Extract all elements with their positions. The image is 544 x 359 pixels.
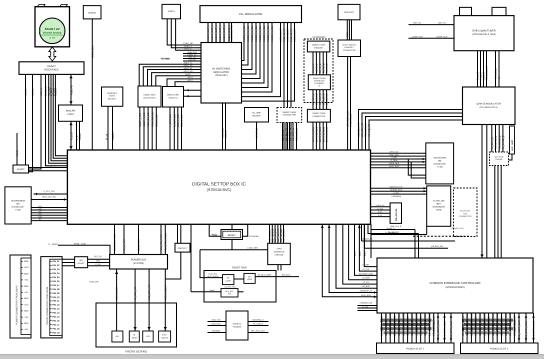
svg-text:FLASH_RST: FLASH_RST: [389, 231, 401, 234]
svg-text:-12V: -12V: [24, 316, 29, 319]
svg-text:DATA(0)_BUS: DATA(0)_BUS: [390, 188, 403, 191]
svg-text:PCMCIA SLOT 1: PCMCIA SLOT 1: [406, 348, 425, 351]
svg-text:CON_TXD: CON_TXD: [211, 319, 221, 322]
svg-text:AUDIO DAC: AUDIO DAC: [143, 94, 156, 97]
svg-text:CVBS_HD: CVBS_HD: [183, 42, 193, 45]
svg-text:PC_CD_B: PC_CD_B: [407, 316, 410, 328]
svg-text:CVCTR: CVCTR: [189, 58, 196, 61]
svg-text:IOB: IOB: [505, 327, 508, 332]
svg-text:IOB: IOB: [424, 327, 427, 332]
svg-text:SDRAM/MEM: SDRAM/MEM: [11, 200, 25, 203]
svg-text:RST_IN_280: RST_IN_280: [280, 228, 283, 242]
svg-text:-90N6): -90N6): [436, 209, 442, 212]
svg-text:(CD1616LF/IH-3_MK3): (CD1616LF/IH-3_MK3): [472, 33, 496, 36]
svg-text:PwoL: PwoL: [212, 234, 218, 237]
svg-text:POW_ON_PWR: POW_ON_PWR: [160, 234, 163, 252]
svg-text:SVHS_C: SVHS_C: [184, 48, 193, 51]
svg-text:BUS: BUS: [363, 251, 366, 256]
svg-text:PIN_03: PIN_03: [52, 268, 60, 271]
svg-text:DQM: DQM: [38, 215, 43, 218]
svg-text:TS_CLK: TS_CLK: [362, 305, 370, 308]
svg-text:MILLENIUM: MILLENIUM: [395, 209, 398, 221]
svg-text:PC_CD_BUS: PC_CD_BUS: [402, 312, 405, 327]
svg-text:VIDEO_IN_SW: VIDEO_IN_SW: [263, 25, 266, 42]
svg-text:PC_CD_BU: PC_CD_BU: [479, 314, 482, 327]
svg-text:AUDIO_OUT_L: AUDIO_OUT_L: [207, 24, 210, 41]
svg-text:SC_IO_D: SC_IO_D: [322, 63, 325, 73]
svg-text:RAS_CAS: RAS_CAS: [390, 153, 400, 156]
svg-text:FRONT CONNECTOR FROM MAIN: FRONT CONNECTOR FROM MAIN: [46, 287, 49, 325]
svg-text:(74HC04): (74HC04): [275, 254, 284, 257]
svg-text:STBY: STBY: [162, 334, 168, 337]
svg-text:Mem_CLK_FB: Mem_CLK_FB: [42, 195, 56, 198]
svg-text:GND: GND: [24, 272, 29, 275]
svg-text:CD_CTRL_BUS: CD_CTRL_BUS: [450, 321, 453, 338]
svg-text:DVB-C/QAM TUNER: DVB-C/QAM TUNER: [472, 30, 496, 33]
svg-text:MULTI SWITCH: MULTI SWITCH: [342, 44, 356, 47]
svg-text:(ANT_MODE): (ANT_MODE): [207, 275, 219, 278]
svg-text:(M29W640FB: (M29W640FB: [433, 206, 446, 209]
svg-text:5V: 5V: [498, 76, 501, 79]
svg-text:RGB_FB: RGB_FB: [70, 85, 73, 95]
svg-text:A2_BUS: A2_BUS: [377, 207, 384, 210]
svg-text:PC_CD_B: PC_CD_B: [513, 316, 516, 328]
svg-text:RS232M: RS232M: [233, 326, 241, 329]
svg-text:PC_CD_B: PC_CD_B: [381, 316, 384, 328]
svg-text:VIDEO_IN_SW: VIDEO_IN_SW: [247, 25, 250, 42]
svg-text:RST_IN_269: RST_IN_269: [269, 228, 272, 242]
svg-text:BLK_RST: BLK_RST: [226, 290, 235, 293]
svg-text:CI_PWR: CI_PWR: [362, 277, 370, 280]
svg-text:I2C_AV: I2C_AV: [225, 130, 228, 138]
svg-text:IOB: IOB: [433, 327, 436, 332]
svg-text:8M: 8M: [16, 203, 19, 206]
svg-text:I_OE(MEM): I_OE(MEM): [391, 195, 402, 198]
svg-text:AC_3/RF: AC_3/RF: [252, 112, 262, 115]
svg-text:(K4S641632E-: (K4S641632E-: [11, 206, 24, 209]
svg-text:IOB: IOB: [488, 327, 491, 332]
svg-text:(TEA6415C): (TEA6415C): [215, 74, 228, 77]
svg-text:PROTECT: PROTECT: [178, 247, 188, 250]
svg-text:KEY_IN_FB: KEY_IN_FB: [116, 287, 119, 300]
svg-text:(TDA10021HT/C1): (TDA10021HT/C1): [480, 106, 499, 109]
svg-text:RST_IN_275: RST_IN_275: [274, 228, 277, 242]
svg-text:CONT: CONT: [109, 95, 116, 98]
svg-text:AUDIO_OUT_L: AUDIO_OUT_L: [211, 24, 214, 41]
svg-text:MODCHIP_(T): MODCHIP_(T): [360, 290, 373, 293]
svg-text:OSC: OSC: [346, 32, 349, 37]
svg-text:SDA_V_DO: SDA_V_DO: [177, 114, 180, 127]
svg-text:(A2_BUS_PS): (A2_BUS_PS): [431, 245, 443, 248]
svg-text:DATA_BUS: DATA_BUS: [361, 294, 371, 297]
svg-text:V5_STBY_PWR: V5_STBY_PWR: [114, 234, 117, 251]
svg-text:HANDSET: HANDSET: [345, 46, 355, 49]
svg-text:IOB: IOB: [415, 327, 418, 332]
svg-text:ADDR_BUS: ADDR_BUS: [389, 162, 400, 165]
svg-text:VIDEO_IN_SW: VIDEO_IN_SW: [243, 25, 246, 42]
svg-text:SC_IO_D: SC_IO_D: [319, 63, 322, 73]
svg-text:PC_CD_BUS: PC_CD_BUS: [389, 312, 392, 327]
svg-text:PC_CD_BUS: PC_CD_BUS: [415, 312, 418, 327]
svg-text:LRCLK_DO: LRCLK_DO: [155, 114, 158, 127]
svg-text:+12V: +12V: [24, 303, 29, 306]
svg-text:TRANSF: TRANSF: [495, 158, 503, 161]
svg-text:PC_CD_BU: PC_CD_BU: [411, 314, 414, 327]
svg-text:PC_CD_BU: PC_CD_BU: [385, 314, 388, 327]
svg-text:PC_CD_BUS: PC_CD_BUS: [470, 312, 473, 327]
svg-text:POWL_LTDO: POWL_LTDO: [74, 242, 87, 245]
svg-text:(RE_BLK): (RE_BLK): [282, 274, 291, 277]
svg-text:FLASH_BY: FLASH_BY: [460, 210, 471, 213]
svg-text:SC_CLK_D: SC_CLK_D: [316, 93, 319, 105]
svg-text:SENS: SENS: [132, 337, 138, 340]
svg-text:IR_IN: IR_IN: [105, 134, 108, 140]
svg-text:AOUT_RR: AOUT_RR: [183, 70, 193, 73]
svg-text:IOB: IOB: [479, 327, 482, 332]
svg-text:PC_CD_B: PC_CD_B: [462, 316, 465, 328]
svg-text:DIGITAL SETTOP BOX IC: DIGITAL SETTOP BOX IC: [192, 182, 246, 187]
svg-text:IR_DATA_IN: IR_DATA_IN: [350, 113, 353, 127]
svg-text:V2_5_PWR: V2_5_PWR: [138, 239, 141, 252]
svg-text:AOUT_L_DO: AOUT_L_DO: [139, 113, 142, 127]
svg-text:PC_CD_B: PC_CD_B: [475, 316, 478, 328]
svg-text:CI_CLK: CI_CLK: [363, 268, 370, 271]
svg-text:LOOP: LOOP: [226, 279, 232, 282]
svg-text:POWER/LDO: POWER/LDO: [131, 258, 146, 261]
svg-text:CON_RXD: CON_RXD: [211, 323, 221, 326]
svg-text:AUDIO_OUT_L: AUDIO_OUT_L: [223, 24, 226, 41]
svg-text:AUDIO_OUT_L: AUDIO_OUT_L: [219, 24, 222, 41]
svg-text:CD_ADDR_BUS: CD_ADDR_BUS: [437, 320, 440, 338]
svg-text:SC_CLK_D: SC_CLK_D: [319, 93, 322, 105]
svg-text:LOOP: LOOP: [247, 278, 253, 281]
svg-text:SC_IO_D: SC_IO_D: [326, 63, 329, 73]
svg-text:(SDA/CS): (SDA/CS): [169, 96, 178, 99]
svg-text:VIDEO_IN_SW: VIDEO_IN_SW: [271, 25, 274, 42]
svg-text:PIN_09: PIN_09: [52, 292, 60, 295]
svg-text:(STi4600/CIMaX): (STi4600/CIMaX): [445, 286, 464, 289]
svg-text:SW/LED: SW/LED: [161, 337, 169, 340]
svg-text:RE_BLK_LOOP: RE_BLK_LOOP: [258, 274, 272, 277]
svg-text:GND: GND: [24, 322, 29, 325]
svg-text:PW: PW: [228, 292, 231, 295]
svg-text:DATA_IO_BUS: DATA_IO_BUS: [326, 126, 329, 142]
svg-text:TV/VMM: TV/VMM: [160, 58, 169, 61]
svg-text:RGB_FB: RGB_FB: [66, 110, 76, 113]
svg-text:VIDEO_IN_SW: VIDEO_IN_SW: [259, 25, 262, 42]
svg-text:BOOTCS_(TS): BOOTCS_(TS): [390, 186, 403, 189]
svg-text:TS_CLK_Q: TS_CLK_Q: [491, 137, 494, 149]
svg-text:SCL_V_DO: SCL_V_DO: [181, 115, 184, 127]
svg-text:S_SYS_CLK: S_SYS_CLK: [43, 190, 55, 193]
svg-text:MUXER: MUXER: [253, 115, 261, 118]
svg-text:BUS: BUS: [354, 251, 357, 256]
svg-text:ANT GATE: ANT GATE: [494, 155, 504, 158]
svg-text:PC_CON_2: PC_CON_2: [253, 323, 263, 326]
svg-text:LOOP_OUT: LOOP_OUT: [436, 35, 448, 38]
svg-text:PIN_12: PIN_12: [52, 304, 60, 307]
svg-text:PWR_CPS: PWR_CPS: [89, 281, 99, 284]
svg-text:VIDEO_IN_SW: VIDEO_IN_SW: [251, 25, 254, 42]
svg-text:CD_CTRL_BUS: CD_CTRL_BUS: [533, 321, 536, 338]
svg-text:SC_CLK_D: SC_CLK_D: [326, 93, 329, 105]
svg-text:SPL_RXD_OUT: SPL_RXD_OUT: [251, 330, 266, 333]
svg-text:VIDEO: VIDEO: [168, 10, 175, 13]
svg-text:TS_VALID_Q: TS_VALID_Q: [498, 135, 501, 149]
svg-text:VOUT: VOUT: [187, 79, 193, 82]
svg-text:VIDEO ENC: VIDEO ENC: [167, 94, 179, 97]
svg-text:8BIT: 8BIT: [436, 203, 441, 206]
svg-text:SMART CARD: SMART CARD: [312, 44, 326, 47]
svg-text:IR_RCV_FB: IR_RCV_FB: [134, 287, 137, 300]
svg-text:LTAG_RST: LTAG_RST: [208, 273, 218, 276]
svg-text:PC_CD_B: PC_CD_B: [501, 316, 504, 328]
svg-text:CONNECTOR: CONNECTOR: [459, 215, 472, 218]
svg-text:VCXO: VCXO: [16, 150, 19, 157]
svg-text:DATA_IO_BUS: DATA_IO_BUS: [319, 126, 322, 142]
svg-text:SN74LVC: SN74LVC: [233, 323, 242, 326]
svg-text:21 PIN: 21 PIN: [49, 37, 56, 40]
svg-text:SC_IO_D: SC_IO_D: [312, 63, 315, 73]
svg-text:PCMCIA SLOT 2: PCMCIA SLOT 2: [490, 348, 509, 351]
svg-text:MOD_IO_RF: MOD_IO_RF: [294, 28, 297, 42]
svg-text:SUB OSC: SUB OSC: [344, 11, 354, 14]
svg-text:SMART CARD: SMART CARD: [312, 112, 326, 115]
svg-text:ANT_IN: ANT_IN: [438, 22, 446, 25]
svg-text:VIDEO_IN_SW: VIDEO_IN_SW: [267, 25, 270, 42]
svg-text:LTAG_SER: LTAG_SER: [248, 246, 259, 249]
svg-text:S_WE: S_WE: [391, 156, 397, 159]
svg-text:PIN_08: PIN_08: [52, 288, 60, 291]
svg-text:STBY_LED_F: STBY_LED_F: [164, 285, 167, 300]
svg-text:DATA_IO_BUS: DATA_IO_BUS: [316, 126, 319, 142]
svg-text:FRONT BOARD: FRONT BOARD: [125, 349, 148, 353]
svg-text:IRQ: IRQ: [79, 259, 83, 262]
svg-text:AGC_AMP: AGC_AMP: [511, 139, 514, 151]
svg-text:IOB: IOB: [389, 327, 392, 332]
svg-text:R_G_B: R_G_B: [70, 132, 73, 140]
svg-text:PIN_11: PIN_11: [52, 300, 60, 303]
svg-text:16M SDRAM: 16M SDRAM: [433, 157, 446, 160]
svg-text:CVBS: CVBS: [79, 133, 82, 140]
svg-text:BUS: BUS: [359, 251, 362, 256]
svg-text:CONV: CONV: [67, 113, 74, 116]
svg-text:DATA_IO_BUS: DATA_IO_BUS: [322, 126, 325, 142]
svg-text:GND: GND: [96, 260, 101, 263]
svg-text:PIN_07: PIN_07: [52, 284, 60, 287]
svg-text:(SYSTEM): (SYSTEM): [133, 262, 144, 265]
svg-text:PC_CD_B: PC_CD_B: [488, 316, 491, 328]
svg-text:COMMON_I2C: COMMON_I2C: [360, 301, 373, 304]
svg-text:PC_CD_BUS: PC_CD_BUS: [483, 312, 486, 327]
svg-text:KEY_5V: KEY_5V: [94, 255, 102, 258]
svg-text:PCM_CK_DO: PCM_CK_DO: [147, 112, 150, 127]
svg-text:SPDIF_O: SPDIF_O: [256, 128, 259, 138]
svg-text:(STi5518 BVC): (STi5518 BVC): [207, 188, 232, 192]
svg-text:SCART AV: SCART AV: [45, 27, 60, 31]
svg-text:PIN_18: PIN_18: [52, 327, 60, 330]
svg-text:RST_IN_277: RST_IN_277: [277, 228, 280, 242]
svg-text:PCM_DA_DO: PCM_DA_DO: [151, 112, 154, 127]
svg-text:PIN_15: PIN_15: [52, 316, 60, 319]
svg-text:VIDEO_IN_SW: VIDEO_IN_SW: [255, 25, 258, 42]
svg-text:(Dual Stereo): (Dual Stereo): [144, 96, 156, 99]
svg-text:CONTROL_0: CONTROL_0: [252, 319, 263, 322]
svg-text:R_W: R_W: [378, 214, 382, 217]
svg-text:4MHz_CLK: 4MHz_CLK: [92, 45, 95, 58]
svg-text:DETECT: DETECT: [108, 97, 117, 100]
svg-text:PC_CD_B: PC_CD_B: [433, 316, 436, 328]
svg-text:FE_IRQ_FE: FE_IRQ_FE: [368, 124, 371, 137]
svg-text:AOUT_RL: AOUT_RL: [184, 67, 193, 70]
svg-text:TS_DATA_Q: TS_DATA_Q: [495, 136, 498, 150]
svg-text:IOB: IOB: [513, 327, 516, 332]
svg-text:GND: GND: [24, 260, 29, 263]
svg-text:SC_CLK_D: SC_CLK_D: [312, 93, 315, 105]
svg-text:(W_RST_PW): (W_RST_PW): [225, 286, 236, 289]
svg-text:LED: LED: [146, 335, 150, 338]
svg-text:P_ON: P_ON: [96, 263, 102, 266]
svg-text:PC_CD_BUS: PC_CD_BUS: [496, 312, 499, 327]
svg-text:GND: GND: [24, 297, 29, 300]
svg-text:CVBS_O: CVBS_O: [45, 86, 48, 96]
svg-text:TAG: TAG: [463, 212, 467, 215]
svg-text:CD_DATA_BUS: CD_DATA_BUS: [525, 321, 528, 338]
svg-text:AOUT_R_DO: AOUT_R_DO: [143, 112, 146, 127]
svg-text:RESET PAIR: RESET PAIR: [232, 267, 247, 270]
svg-text:ANT_IN: ANT_IN: [413, 22, 421, 25]
svg-text:AUD_L: AUD_L: [32, 88, 35, 96]
svg-text:DATA_BUS: DATA_BUS: [389, 165, 399, 168]
svg-text:S_DQM: S_DQM: [391, 159, 398, 162]
svg-text:DEMOD: DEMOD: [88, 11, 97, 14]
svg-text:IOB: IOB: [470, 327, 473, 332]
svg-text:(CI_MOD_PW): (CI_MOD_PW): [451, 227, 464, 230]
svg-text:TL_SMPS: TL_SMPS: [48, 243, 58, 246]
svg-text:IOB: IOB: [407, 327, 410, 332]
svg-text:V3_3_PWR: V3_3_PWR: [123, 239, 126, 252]
svg-text:CI_CS: CI_CS: [363, 281, 369, 284]
svg-text:PIN_17: PIN_17: [52, 323, 60, 326]
svg-text:SENSOR: SENSOR: [212, 330, 221, 333]
svg-text:TS_SYNC_Q: TS_SYNC_Q: [502, 135, 505, 149]
svg-text:Y_OUT_DO: Y_OUT_DO: [169, 114, 172, 127]
svg-text:TUN_SDA_T: TUN_SDA_T: [486, 66, 489, 80]
svg-text:PIN_06: PIN_06: [52, 280, 60, 283]
svg-text:SMART CARD: SMART CARD: [282, 111, 296, 114]
svg-text:SYS_CLK: SYS_CLK: [390, 150, 399, 153]
svg-text:RST_IN_272: RST_IN_272: [271, 228, 274, 242]
svg-text:SC_VCC_IN: SC_VCC_IN: [296, 127, 299, 141]
svg-text:SC_CLK_D: SC_CLK_D: [322, 93, 325, 105]
svg-text:MUTE: MUTE: [185, 73, 191, 76]
svg-text:AOUT_FR: AOUT_FR: [184, 64, 193, 67]
svg-text:4 PIN: 4 PIN: [276, 248, 282, 251]
svg-text:AUDIO_OUT_L: AUDIO_OUT_L: [215, 24, 218, 41]
svg-text:A_DD: A_DD: [393, 191, 399, 194]
svg-text:PIN_02: PIN_02: [52, 264, 60, 267]
svg-text:-TC60): -TC60): [437, 166, 444, 169]
svg-text:8M: 8M: [438, 160, 441, 163]
svg-text:FB_OUT: FB_OUT: [48, 86, 51, 96]
svg-text:CD_ADDR_BUS: CD_ADDR_BUS: [518, 320, 521, 338]
svg-text:PIN_16: PIN_16: [52, 319, 60, 322]
svg-text:PC_CD_B: PC_CD_B: [394, 316, 397, 328]
svg-text:XTAL_OSC: XTAL_OSC: [45, 164, 56, 167]
svg-text:SC_IO_D: SC_IO_D: [316, 63, 319, 73]
svg-text:PC_CD_BU: PC_CD_BU: [505, 314, 508, 327]
svg-text:MODULATOR: MODULATOR: [213, 71, 229, 74]
svg-text:CONNECTOR: CONNECTOR: [283, 114, 297, 117]
svg-text:IOB: IOB: [462, 327, 465, 332]
svg-text:LOOP_OUT: LOOP_OUT: [412, 35, 424, 38]
svg-text:RMB_CPS_B: RMB_CPS_B: [390, 225, 402, 228]
svg-text:PC_CD_BUS: PC_CD_BUS: [428, 312, 431, 327]
svg-text:IOB: IOB: [381, 327, 384, 332]
svg-text:PC_CD_B: PC_CD_B: [420, 316, 423, 328]
svg-text:IOB: IOB: [398, 327, 401, 332]
svg-text:VOUT: VOUT: [187, 76, 193, 79]
svg-text:PIN_04: PIN_04: [52, 272, 60, 275]
svg-text:IOB: IOB: [496, 327, 499, 332]
svg-text:RESET: RESET: [228, 234, 237, 237]
svg-text:CD_DATA_BUS: CD_DATA_BUS: [444, 321, 447, 338]
svg-text:AUDIO_OUT_L: AUDIO_OUT_L: [231, 24, 234, 41]
svg-text:PLL MODULATOR: PLL MODULATOR: [239, 12, 262, 16]
svg-text:(STANDBY): (STANDBY): [249, 235, 259, 238]
svg-text:PIN_14: PIN_14: [52, 312, 60, 315]
svg-text:AD_BUS: AD_BUS: [362, 285, 370, 288]
svg-text:GND: GND: [24, 285, 29, 288]
svg-text:(K4S641632E: (K4S641632E: [433, 163, 446, 166]
svg-text:DEMOD: DEMOD: [17, 168, 25, 171]
svg-text:PIN_01: PIN_01: [52, 260, 60, 263]
svg-text:RST_IN_283: RST_IN_283: [283, 228, 286, 242]
svg-text:AGND: AGND: [25, 89, 28, 96]
svg-text:CONNECTOR: CONNECTOR: [343, 49, 356, 52]
svg-text:PC_CD_BU: PC_CD_BU: [424, 314, 427, 327]
svg-text:RstW: RstW: [210, 289, 215, 292]
svg-text:IR/RESET: IR/RESET: [107, 92, 117, 95]
svg-text:PIN_19: PIN_19: [52, 331, 60, 334]
svg-text:PC_CD_BU: PC_CD_BU: [492, 314, 495, 327]
svg-text:LED_DRV_FB: LED_DRV_FB: [148, 284, 151, 300]
svg-text:RESET: RESET: [112, 132, 115, 140]
svg-text:READER: READER: [314, 46, 323, 49]
svg-text:TC60): TC60): [15, 209, 21, 212]
svg-text:LATCH_PS: LATCH_PS: [376, 204, 385, 207]
svg-text:(Female Socket): (Female Socket): [43, 31, 62, 34]
svg-text:AUD_R: AUD_R: [40, 88, 43, 96]
svg-text:PC_CD_BU: PC_CD_BU: [398, 314, 401, 327]
svg-text:DATA_IO_BUS: DATA_IO_BUS: [312, 126, 315, 142]
svg-text:PIN_13: PIN_13: [52, 308, 60, 311]
svg-text:BATTERY_GND: BATTERY_GND: [359, 272, 373, 275]
svg-text:PIN_05: PIN_05: [52, 276, 60, 279]
svg-text:FLASH_8M: FLASH_8M: [433, 200, 444, 203]
svg-text:GND: GND: [24, 310, 29, 313]
svg-text:CONNECTOR: CONNECTOR: [312, 115, 325, 118]
svg-text:PC_CD_BU: PC_CD_BU: [466, 314, 469, 327]
svg-text:PC_CD_BUS: PC_CD_BUS: [509, 312, 512, 327]
svg-text:PW_CTRL_PWR: PW_CTRL_PWR: [164, 233, 167, 251]
svg-text:INVERTER: INVERTER: [274, 251, 285, 254]
svg-text:QAM DEMODULATOR: QAM DEMODULATOR: [476, 103, 501, 106]
svg-text:PIN_10: PIN_10: [52, 296, 60, 299]
svg-text:INTERFACE: INTERFACE: [44, 68, 59, 71]
svg-text:CI_RST: CI_RST: [363, 264, 371, 267]
svg-text:POWER CONNECTOR FROM SMPS: POWER CONNECTOR FROM SMPS: [16, 285, 19, 325]
